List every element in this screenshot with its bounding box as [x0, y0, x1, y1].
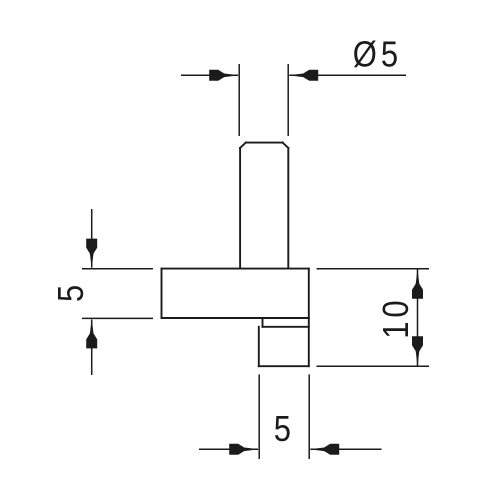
dimension line bottom 5 left — [199, 448, 258, 450]
extension lines for Ø5 — [239, 64, 288, 136]
arrowhead Ø5 left — [209, 70, 239, 81]
arrowhead left 5 up — [86, 318, 97, 348]
svg-text:Ø: Ø — [353, 35, 377, 75]
step between plate and lower boss — [263, 318, 309, 327]
arrowhead bottom 5 right-pointing — [229, 444, 259, 455]
dimension line Ø5 right — [289, 74, 406, 76]
dimension line left 5 lower — [91, 320, 93, 375]
dimension text right 10 (rotated) — [377, 300, 417, 338]
svg-text:5: 5 — [381, 35, 398, 75]
svg-text:0: 0 — [377, 300, 417, 317]
extension lines for right 10 — [317, 269, 430, 367]
arrowhead right 10 up — [412, 269, 423, 299]
svg-text:5: 5 — [52, 285, 92, 302]
arrowhead right 10 down — [412, 336, 423, 366]
dimension line right 10 — [417, 269, 419, 367]
svg-text:5: 5 — [274, 410, 291, 450]
dimension line bottom 5 right — [310, 448, 381, 450]
dimension line left 5 upper — [91, 209, 93, 268]
extension lines for bottom 5 — [259, 374, 309, 459]
dimension text bottom 5 — [274, 410, 291, 450]
flange plate outline — [162, 269, 309, 367]
svg-text:1: 1 — [377, 321, 417, 338]
top pin outline (Ø5 stud) — [240, 143, 288, 269]
extension lines for left 5 — [82, 269, 153, 319]
dimension line Ø5 left — [181, 74, 238, 76]
dimension text Ø5 — [353, 35, 398, 75]
arrowhead left 5 down — [86, 239, 97, 269]
arrowhead bottom 5 left-pointing — [309, 444, 339, 455]
arrowhead Ø5 right — [288, 70, 318, 81]
dimension text left 5 (rotated) — [52, 285, 92, 302]
lower boss outline — [259, 327, 309, 366]
